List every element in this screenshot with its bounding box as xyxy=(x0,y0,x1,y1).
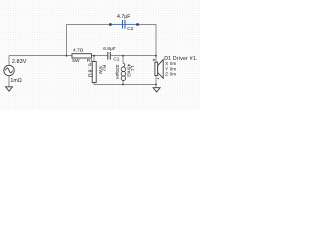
wire main left xyxy=(9,55,72,57)
svg-text:L1: L1 xyxy=(129,66,135,72)
wire source top stub xyxy=(8,56,10,66)
wire top bypass xyxy=(67,23,157,25)
C2 selection handle right xyxy=(136,23,139,25)
svg-text:4.7µF: 4.7µF xyxy=(117,14,130,20)
wire ground2 stub xyxy=(155,85,157,88)
wire right riser xyxy=(155,24,157,55)
speaker D1 xyxy=(155,60,163,79)
wire C1 to node xyxy=(111,55,156,57)
inductor L1 xyxy=(121,63,126,80)
wire source bottom stub xyxy=(8,76,10,87)
junction dots xyxy=(66,55,157,86)
speaker minus terminal dot xyxy=(157,78,158,79)
wire R2 top stub xyxy=(93,56,95,62)
wire speaker top stub xyxy=(155,56,157,63)
capacitor C1 xyxy=(108,52,111,60)
C2 selection handle left xyxy=(109,23,112,25)
svg-text:6.8Ω: 6.8Ω xyxy=(86,63,92,78)
svg-text:6.8µF: 6.8µF xyxy=(103,46,115,52)
svg-text:5W: 5W xyxy=(72,58,80,64)
wire R1 to C1 xyxy=(92,55,108,57)
speaker plus mark xyxy=(153,59,155,61)
svg-text:C2: C2 xyxy=(127,26,133,32)
svg-text:R2: R2 xyxy=(101,65,107,71)
svg-text:330µH: 330µH xyxy=(114,65,120,80)
wire L1 bottom stub xyxy=(122,80,124,84)
svg-text:4.7Ω: 4.7Ω xyxy=(73,48,84,54)
wire L1 top stub xyxy=(122,56,124,64)
svg-text:Z 0m: Z 0m xyxy=(165,72,176,77)
voltage source V xyxy=(4,65,14,75)
resistor R1 xyxy=(72,54,92,58)
svg-text:C1: C1 xyxy=(113,57,119,62)
wire R2 bottom stub xyxy=(93,83,95,85)
svg-text:2.83V: 2.83V xyxy=(12,59,27,65)
resistor R2 xyxy=(92,62,96,83)
ground (speaker) xyxy=(153,88,160,92)
capacitor C2 (selected, blue) xyxy=(110,23,138,25)
wire bottom rail xyxy=(94,84,156,86)
ground (source) xyxy=(6,87,13,91)
svg-text:1mΩ: 1mΩ xyxy=(10,78,21,84)
wire speaker bottom stub xyxy=(155,76,157,85)
wire left riser xyxy=(66,24,68,55)
